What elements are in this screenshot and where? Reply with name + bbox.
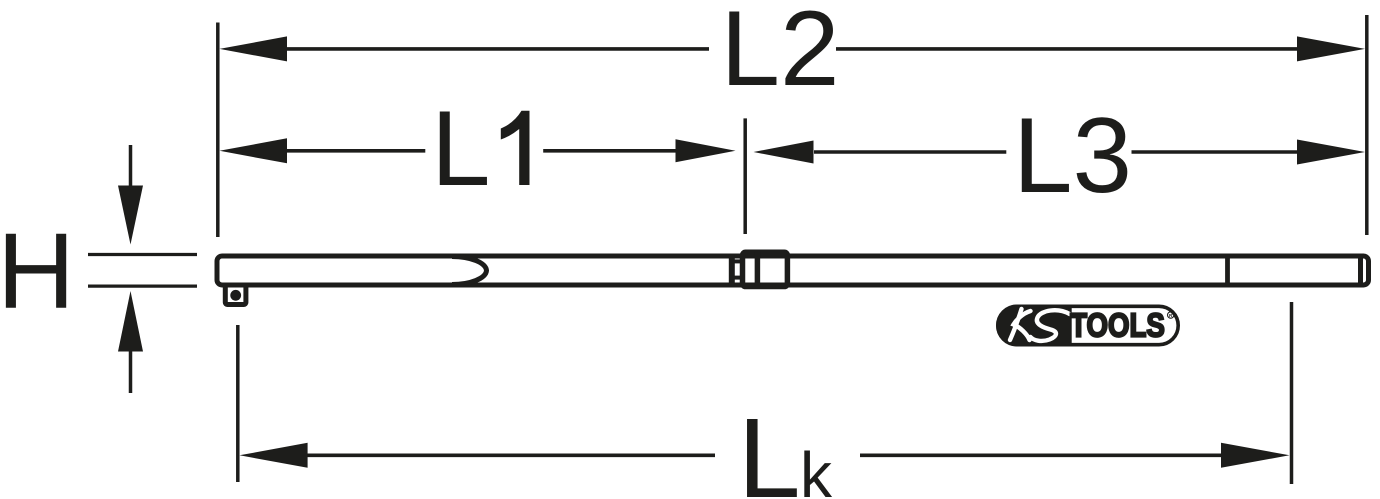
svg-text:L3: L3 [1013, 95, 1132, 215]
svg-text:H: H [0, 210, 75, 331]
svg-text:L: L [431, 88, 491, 208]
svg-text:L2: L2 [720, 0, 839, 108]
svg-text:TOOLS: TOOLS [1070, 307, 1165, 344]
svg-text:L: L [738, 395, 801, 499]
svg-text:k: k [800, 439, 833, 499]
